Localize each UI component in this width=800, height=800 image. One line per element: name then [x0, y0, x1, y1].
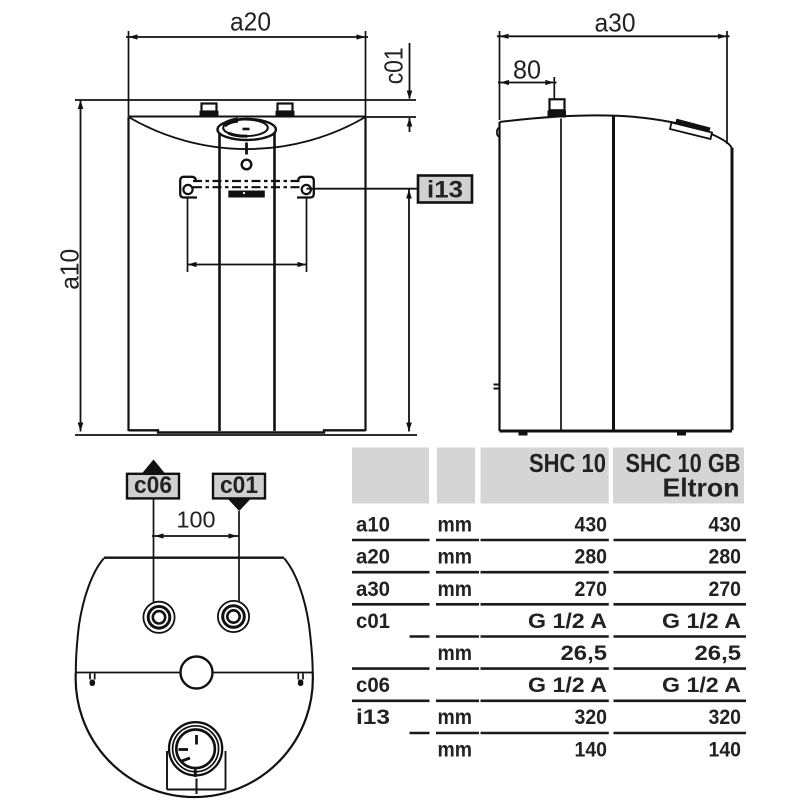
svg-text:mm: mm [438, 514, 473, 537]
svg-text:c06: c06 [134, 472, 172, 499]
svg-text:c01: c01 [220, 472, 258, 499]
svg-text:mm: mm [438, 642, 473, 665]
svg-text:a10: a10 [356, 514, 390, 537]
svg-text:26,5: 26,5 [561, 642, 608, 665]
svg-text:mm: mm [438, 706, 473, 729]
svg-text:26,5: 26,5 [695, 642, 742, 665]
svg-text:SHC 10: SHC 10 [529, 448, 606, 478]
svg-text:G 1/2 A: G 1/2 A [528, 674, 607, 697]
svg-text:430: 430 [709, 514, 742, 537]
svg-text:Eltron: Eltron [663, 472, 740, 502]
svg-text:a20: a20 [356, 546, 390, 569]
svg-text:c01: c01 [356, 610, 390, 633]
svg-text:a30: a30 [356, 578, 390, 601]
svg-text:320: 320 [575, 706, 608, 729]
svg-text:G 1/2 A: G 1/2 A [662, 610, 741, 633]
svg-text:mm: mm [438, 738, 473, 761]
svg-text:270: 270 [575, 578, 608, 601]
svg-text:a20: a20 [230, 7, 271, 37]
svg-text:c06: c06 [356, 674, 390, 697]
svg-text:a10: a10 [55, 249, 85, 290]
svg-text:mm: mm [438, 578, 473, 601]
svg-text:c01: c01 [379, 47, 409, 84]
svg-text:320: 320 [709, 706, 742, 729]
svg-text:280: 280 [709, 546, 742, 569]
svg-text:i13: i13 [427, 177, 463, 204]
svg-text:140: 140 [709, 738, 742, 761]
svg-text:i13: i13 [356, 706, 390, 729]
svg-text:270: 270 [709, 578, 742, 601]
svg-text:G 1/2 A: G 1/2 A [662, 674, 741, 697]
svg-text:80: 80 [513, 54, 541, 84]
svg-text:140: 140 [575, 738, 608, 761]
svg-text:280: 280 [575, 546, 608, 569]
svg-text:430: 430 [575, 514, 608, 537]
svg-text:G 1/2 A: G 1/2 A [528, 610, 607, 633]
svg-text:a30: a30 [595, 8, 636, 38]
svg-text:mm: mm [438, 546, 473, 569]
svg-text:100: 100 [177, 507, 216, 533]
